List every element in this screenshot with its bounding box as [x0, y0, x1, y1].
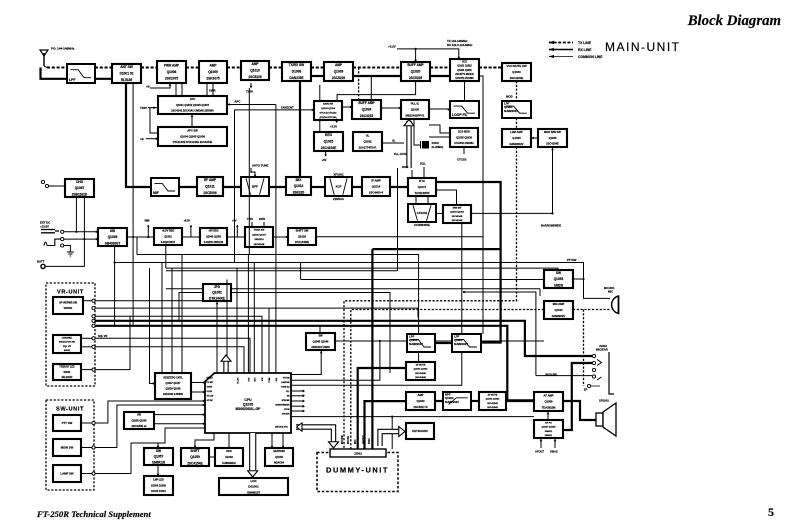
wire stub out b — [291, 395, 304, 397]
svg-text:TONE SQ: TONE SQ — [281, 387, 290, 389]
svg-text:MIC: MIC — [608, 290, 613, 294]
wire sql — [423, 167, 425, 178]
wire stub out e — [291, 410, 304, 412]
CPU-J1001 head — [297, 423, 303, 431]
svg-text:MIC: MIC — [354, 439, 357, 444]
wire rx mix-xcf — [311, 186, 325, 188]
PLL IC Q1030 — [401, 100, 429, 119]
svg-text:Q1041 Q1042: Q1041 Q1042 — [486, 398, 501, 401]
svg-text:AUTO TUNE: AUTO TUNE — [252, 164, 268, 168]
wire chg down a — [75, 197, 77, 232]
KEYBOARD — [406, 423, 434, 439]
wire reset v2 — [171, 268, 173, 373]
svg-text:UM6K1: UM6K1 — [545, 431, 553, 433]
svg-text:Q1038 Q1039: Q1038 Q1039 — [165, 388, 181, 391]
svg-text:MAIN-UNIT: MAIN-UNIT — [605, 40, 681, 54]
wire +5.2v line — [397, 49, 459, 59]
RESET/PO CNTL Q1037 — [155, 373, 191, 399]
svg-text:TDA2822M: TDA2822M — [542, 405, 557, 409]
svg-text:+5.3V: +5.3V — [330, 125, 337, 129]
HPF Q1064 — [443, 392, 471, 410]
EEPROM Q1050 — [265, 448, 293, 466]
svg-text:XF1001: XF1001 — [333, 173, 344, 177]
svg-text:XCF: XCF — [336, 185, 342, 189]
svg-text:TONE: TONE — [269, 377, 271, 383]
LOOP FIL — [450, 101, 479, 118]
BPF filter — [241, 177, 269, 196]
svg-text:AFOUT: AFOUT — [362, 435, 365, 444]
svg-text:MOD N/W SW: MOD N/W SW — [544, 130, 561, 134]
wire cpu v6 — [226, 280, 228, 374]
LPF Q1064 — [502, 101, 531, 118]
wire lpf-lpf — [435, 342, 452, 344]
svg-text:M24C64: M24C64 — [274, 461, 284, 465]
wire rx mif-rf — [179, 186, 197, 188]
wire cpu lamp — [291, 341, 380, 380]
svg-text:PO: 144-146MHz: PO: 144-146MHz — [51, 47, 75, 51]
svg-text:SHIFT SW: SHIFT SW — [296, 229, 309, 233]
wire y289 drop2 — [539, 289, 541, 296]
svg-text:AMP: AMP — [418, 393, 424, 397]
arrowhead swcpu b — [203, 422, 205, 425]
svg-text:Q1035 Q1036: Q1035 Q1036 — [456, 136, 472, 139]
svg-text:VCO: VCO — [462, 62, 467, 64]
wire extdc-sw2 — [64, 238, 98, 240]
wire afpo-afamp — [547, 411, 549, 420]
svg-text:DIM SUB STC: DIM SUB STC — [275, 427, 289, 429]
svg-text:Q1059: Q1059 — [190, 455, 200, 459]
wire txrx2-shift — [273, 236, 288, 238]
wire bus y254 — [137, 255, 419, 363]
wire modnw down — [552, 147, 554, 214]
svg-text:SW: SW — [318, 335, 323, 338]
svg-text:Q1045 Q1046: Q1045 Q1046 — [313, 340, 329, 343]
svg-text:CF1001: CF1001 — [417, 211, 428, 215]
speaker SP1001 — [596, 403, 616, 436]
svg-text:Q1018 Q1019: Q1018 Q1019 — [321, 108, 336, 110]
wire +B pwr — [150, 83, 170, 88]
svg-text:Q1063: Q1063 — [512, 136, 521, 140]
svg-text:3.6864MHz: 3.6864MHz — [222, 461, 236, 465]
wire cpu v4 — [268, 308, 270, 373]
wire extdc-sw — [64, 231, 98, 233]
svg-text:2SC4154E x2: 2SC4154E x2 — [132, 425, 148, 428]
svg-text:Q1015 Q1016: Q1015 Q1016 — [450, 212, 465, 214]
svg-text:TX/BUSY LED: TX/BUSY LED — [59, 367, 74, 369]
wire VCO out right — [479, 76, 483, 334]
wire buff-pll — [381, 107, 401, 109]
svg-text:2SC4154E: 2SC4154E — [321, 146, 336, 150]
svg-text:PLLDT: PLLDT — [237, 377, 239, 384]
svg-text:OSC: OSC — [226, 449, 232, 453]
svg-text:GMN8157: GMN8157 — [247, 490, 261, 494]
wire bold bus b — [95, 326, 534, 401]
SW-UNIT box — [46, 400, 94, 490]
svg-text:STB: STB — [262, 377, 264, 381]
CHANNEL SELECTOR S0001 — [53, 335, 81, 353]
svg-text:CFWM450E: CFWM450E — [414, 223, 430, 227]
wire autotune — [250, 168, 252, 173]
svg-text:NJM2902V: NJM2902V — [445, 400, 459, 404]
svg-text:Q1055 Q1056: Q1055 Q1056 — [131, 419, 147, 422]
AMP Q1039 — [324, 62, 353, 81]
ground ext dc — [67, 250, 74, 257]
wire rx xcf-if — [352, 186, 362, 188]
wire stub out a — [291, 390, 304, 392]
APC SW Q1004 — [158, 127, 227, 146]
wire cf-nw — [436, 212, 443, 214]
svg-text:SW: SW — [110, 229, 115, 233]
arrowhead shiftsw in — [286, 236, 288, 239]
svg-text:+B: +B — [146, 85, 150, 89]
svg-text:SW: SW — [556, 271, 561, 275]
wire vr out y300 — [95, 300, 203, 302]
wire dcs-x — [429, 136, 450, 138]
wire sw-cpu b — [154, 423, 205, 425]
wire save top in — [319, 85, 321, 102]
svg-text:2SK1062 S-80845: 2SK1062 S-80845 — [163, 393, 183, 396]
connector sw3 — [92, 472, 95, 475]
SAVE SW Q1018 — [314, 101, 342, 120]
connector EP — [587, 384, 600, 387]
svg-text:MIF: MIF — [153, 191, 159, 195]
svg-text:Q1061 Q1062: Q1061 Q1062 — [414, 369, 429, 371]
connector vr3 — [92, 315, 95, 318]
svg-text:UPDATE: UPDATE — [282, 413, 290, 416]
svg-text:RSSI: RSSI — [402, 165, 409, 169]
wire bold bus a — [95, 321, 592, 356]
svg-text:21M15A: 21M15A — [333, 197, 345, 201]
svg-text:RESET/PO CNTL: RESET/PO CNTL — [163, 376, 183, 379]
svg-text:M30620SSL-GP: M30620SSL-GP — [236, 407, 262, 411]
wire moni out2 — [95, 405, 205, 448]
wire mute-afamp — [506, 400, 534, 402]
wire ific-cf b — [427, 196, 429, 204]
connector vr2 — [92, 307, 95, 310]
svg-text:Q1047 Q1048: Q1047 Q1048 — [542, 426, 557, 429]
svg-text:2SB1218 UM2N: 2SB1218 UM2N — [311, 346, 329, 349]
wire bus y279 — [301, 279, 544, 281]
PWR AMP Q1008 — [157, 61, 186, 83]
svg-text:2SC4154E: 2SC4154E — [510, 76, 524, 80]
svg-text:KEYBOARD: KEYBOARD — [412, 429, 427, 433]
wire RX line LPF-ANTSW — [95, 78, 112, 80]
wire afamp-sp — [563, 401, 596, 420]
wire TX line seg6 — [311, 67, 324, 69]
svg-text:FT-250R Technical Supplement: FT-250R Technical Supplement — [36, 509, 151, 519]
IF AMP Q1014 — [362, 177, 390, 196]
svg-text:AF SW: AF SW — [207, 399, 213, 402]
svg-text:2SC4154E: 2SC4154E — [415, 376, 426, 379]
RF AMP Q1011 — [197, 177, 223, 196]
svg-text:TX LINE: TX LINE — [578, 41, 592, 45]
svg-text:MICSD: MICSD — [347, 436, 350, 444]
svg-text:2SB1218: 2SB1218 — [254, 239, 264, 241]
IF IC Q1017 — [408, 178, 436, 196]
svg-text:BATT: BATT — [37, 260, 45, 264]
svg-text:DAN235E: DAN235E — [289, 76, 303, 80]
wire apc left in — [148, 107, 158, 109]
wire amp-hpf — [435, 400, 443, 402]
junction +5.2V — [415, 48, 417, 50]
arrowhead vco top — [457, 57, 460, 59]
svg-text:MOD: MOD — [506, 95, 513, 99]
arrowhead +53 — [335, 121, 338, 123]
svg-text:TX5V: TX5V — [247, 218, 253, 221]
arrowhead sw1028 b — [96, 238, 98, 241]
svg-text:D0001: D0001 — [64, 372, 71, 374]
arrowhead tx5v — [250, 86, 253, 88]
svg-text:2SC4154E: 2SC4154E — [254, 243, 265, 246]
wire reg-savesw — [319, 119, 321, 133]
svg-text:+8.3V REG: +8.3V REG — [162, 230, 175, 233]
wire jpd right — [231, 293, 390, 374]
wire bus y289 — [166, 288, 540, 290]
wire osc top — [228, 433, 230, 448]
svg-text:S LED: S LED — [207, 391, 213, 393]
svg-text:AF-VR/PWR SW: AF-VR/PWR SW — [59, 302, 78, 305]
svg-text:Block Diagram: Block Diagram — [687, 13, 781, 29]
svg-text:DCS MOD: DCS MOD — [458, 131, 470, 134]
svg-text:2SB1182D: 2SB1182D — [72, 192, 88, 196]
svg-text:AMP: AMP — [251, 62, 259, 66]
wire common dash 2 — [351, 310, 544, 450]
wire TX line seg1 — [95, 67, 112, 69]
wire amp in — [365, 401, 407, 449]
wire shift top — [194, 443, 196, 448]
SW Q1055 Q1056 — [124, 412, 154, 429]
wire cpu long y416 — [291, 416, 534, 418]
svg-text:2SC4141 2SC4141 UMD9N 2SK880: 2SC4141 2SC4141 UMD9N 2SK880 — [171, 109, 214, 113]
svg-text:BUFF AMP: BUFF AMP — [407, 63, 424, 67]
svg-text:TX/RX SW: TX/RX SW — [289, 63, 304, 67]
wire sw1057 top — [157, 443, 159, 448]
svg-text:APC: APC — [190, 97, 196, 101]
svg-text:Q1030: Q1030 — [411, 107, 420, 111]
svg-text:Q1058: Q1058 — [544, 399, 553, 403]
wire reset v3 — [181, 255, 183, 374]
arrowhead stub a — [303, 390, 305, 393]
wire save-buff1020 — [337, 81, 416, 102]
svg-text:Q1014: Q1014 — [372, 185, 381, 189]
wire bus y316 — [95, 316, 262, 373]
arrowhead apc in — [228, 103, 230, 106]
VR-UNIT box — [46, 283, 95, 386]
wire ptt out2 — [95, 401, 205, 423]
J1001-KEYBOARD arrow — [380, 427, 405, 447]
svg-text:Q1044: Q1044 — [554, 308, 563, 312]
wire lamp out — [81, 473, 92, 475]
svg-text:CHANNEL: CHANNEL — [62, 337, 73, 340]
wire stub out d — [291, 405, 304, 407]
junction apc in — [153, 107, 155, 109]
svg-text:Q1054: Q1054 — [554, 277, 564, 281]
svg-text:DTA114XE DTA114XE 2SC4154E: DTA114XE DTA114XE 2SC4154E — [173, 140, 213, 144]
svg-text:Q1004 Q1005 Q1006: Q1004 Q1005 Q1006 — [180, 134, 205, 138]
arrowhead sw1045 up — [320, 351, 323, 353]
wire mic dash down — [583, 310, 585, 387]
svg-text:N/W SW: N/W SW — [453, 208, 462, 210]
arrowhead reset b — [203, 391, 205, 394]
svg-text:MONI SW: MONI SW — [61, 446, 74, 450]
svg-text:5: 5 — [768, 505, 774, 519]
CHG Q1067 — [65, 179, 94, 197]
TX/RX SW Q1046 — [245, 227, 273, 247]
charge terminals — [41, 180, 48, 187]
wire afpo in a — [540, 438, 542, 448]
low-pass filter LPF — [67, 64, 95, 83]
wire rx tap buff — [370, 76, 372, 102]
wire chg-term — [49, 185, 65, 187]
svg-text:EEPROM: EEPROM — [273, 449, 284, 453]
svg-text:PLL DATA: PLL DATA — [394, 152, 407, 156]
wire det bold — [436, 182, 501, 343]
wire ific-nw — [436, 190, 457, 205]
BATT terminal — [41, 264, 45, 268]
CPU Q1035 — [205, 373, 291, 433]
arrowhead modnw up — [551, 148, 554, 150]
svg-text:SQL: SQL — [420, 162, 426, 166]
wire savesw-buff — [342, 106, 352, 108]
arrowhead buff top — [414, 60, 417, 62]
svg-text:SP1001: SP1001 — [599, 399, 609, 403]
wire jpd-cpu — [216, 301, 218, 373]
svg-text:UM6K1: UM6K1 — [545, 435, 553, 437]
AMP Q1009 — [199, 61, 227, 83]
svg-text:MICSW: MICSW — [341, 435, 344, 444]
svg-text:Q1037 Q1017: Q1037 Q1017 — [165, 382, 181, 385]
svg-text:BPF: BPF — [252, 185, 258, 189]
arrowhead apc up — [191, 115, 194, 117]
svg-text:2SC5006: 2SC5006 — [203, 191, 217, 195]
svg-text:S0001: S0001 — [64, 350, 71, 352]
wire sw-lmp — [157, 465, 159, 476]
connector vr7 — [92, 345, 95, 348]
svg-text:BUFF AMP: BUFF AMP — [358, 101, 375, 105]
svg-text:Q1020: Q1020 — [411, 70, 421, 74]
+8.3V REG Q1051 — [154, 228, 182, 245]
wire cpu v3 — [253, 263, 255, 373]
svg-text:LCD: LCD — [251, 479, 257, 483]
svg-text:2SC4154E: 2SC4154E — [452, 215, 463, 218]
svg-text:D1008: D1008 — [292, 70, 302, 74]
arrowhead stub d — [303, 405, 305, 408]
svg-text:Q1039: Q1039 — [334, 70, 344, 74]
wire txrx2 rx5v — [263, 222, 265, 227]
svg-text:Q1033: Q1033 — [512, 70, 521, 74]
svg-text:PO SW: PO SW — [207, 382, 214, 384]
wire hpf-mute — [471, 400, 479, 402]
svg-text:APC: APC — [235, 100, 241, 104]
arrowhead savesw-buff — [350, 106, 352, 109]
wire ch out2 — [95, 338, 250, 373]
+5V REG Q1049 — [200, 228, 227, 245]
JPD Q1052 — [203, 284, 231, 301]
svg-text:2SC5226: 2SC5226 — [248, 75, 262, 79]
wire buff drop — [415, 49, 417, 62]
svg-text:UM2N: UM2N — [554, 283, 564, 287]
wire x1001-pll — [414, 119, 421, 145]
wire bus y263 — [115, 263, 610, 299]
svg-text:RESET: RESET — [207, 378, 214, 380]
svg-text:LAMPSW: LAMPSW — [281, 381, 290, 384]
wire shift from cpu — [195, 433, 214, 444]
wire vert x249 — [248, 88, 250, 255]
svg-text:SQL VR: SQL VR — [98, 335, 107, 338]
svg-text:2SC4774 4SK241: 2SC4774 4SK241 — [455, 73, 474, 76]
svg-text:SW-UNIT: SW-UNIT — [56, 407, 84, 413]
wire vert x233 — [234, 110, 236, 263]
svg-text:RF AMP: RF AMP — [204, 178, 217, 182]
svg-text:Q1028: Q1028 — [108, 235, 118, 239]
AMP Q1010 — [241, 61, 269, 80]
wire sw1045 right — [335, 340, 544, 342]
svg-text:IF AMP: IF AMP — [371, 179, 381, 183]
wire micline — [464, 292, 536, 376]
svg-text:VR0001: VR0001 — [64, 307, 73, 310]
svg-text:X1002: X1002 — [225, 455, 233, 459]
svg-text:SW: SW — [156, 449, 161, 453]
AF-VR/PWR SW VR0001 — [53, 297, 83, 314]
L2M AMP Q1063 — [502, 129, 531, 147]
legend TX line — [549, 41, 592, 45]
svg-text:UL: UL — [366, 134, 370, 138]
svg-text:S-812C33AY: S-812C33AY — [161, 241, 176, 244]
AF MUTE Q1061 — [406, 362, 435, 380]
wire TXRXSW down — [299, 81, 301, 178]
wire cpu v1 — [236, 268, 238, 373]
svg-text:MIC/EAR: MIC/EAR — [596, 348, 608, 352]
wire ific-cf a — [415, 196, 417, 204]
band filter MIF — [151, 178, 179, 196]
SW Q1054 — [544, 270, 573, 288]
LPF Q1060 — [407, 334, 435, 352]
svg-text:SCK: SCK — [249, 377, 251, 382]
svg-text:2SC4154E: 2SC4154E — [415, 372, 426, 375]
wire TX line seg2 — [141, 67, 157, 69]
wire lamp out2 — [95, 443, 158, 474]
arrowhead +B pwr — [169, 84, 172, 86]
wire vert x397 — [397, 168, 399, 271]
svg-text:2SC4215: 2SC4215 — [360, 114, 374, 118]
svg-text:LOOP FIL: LOOP FIL — [452, 113, 468, 117]
wire ch out3 — [81, 346, 92, 348]
arrowhead modnw-l2m — [532, 137, 534, 140]
svg-text:+B: +B — [140, 137, 144, 141]
svg-text:DTA144 DTC143: DTA144 DTC143 — [320, 116, 338, 119]
wire eeprom b — [282, 433, 284, 448]
AMP Q1043 — [406, 392, 435, 410]
wire sw-regs — [127, 236, 154, 238]
ANT SW D1001 — [112, 64, 141, 83]
arrowhead reset in — [153, 382, 155, 385]
svg-text:REG: REG — [325, 133, 332, 137]
svg-text:2SC4154E: 2SC4154E — [487, 406, 498, 409]
connector vr1 — [92, 299, 95, 302]
wire jpd left — [179, 293, 203, 321]
connector vr8 — [92, 368, 95, 371]
svg-text:L2M AMP: L2M AMP — [510, 130, 523, 134]
XCF crystal filter — [325, 173, 352, 202]
svg-text:2SK3075: 2SK3075 — [206, 77, 220, 81]
legend RX line — [549, 48, 592, 52]
wire apcsw left in — [146, 138, 158, 140]
svg-text:STROBE: STROBE — [282, 400, 291, 402]
arrowhead stub c — [303, 400, 305, 403]
arrowhead sw1057 — [157, 446, 160, 448]
wire horiz y270 — [166, 270, 398, 272]
svg-text:AF PO: AF PO — [545, 422, 552, 425]
